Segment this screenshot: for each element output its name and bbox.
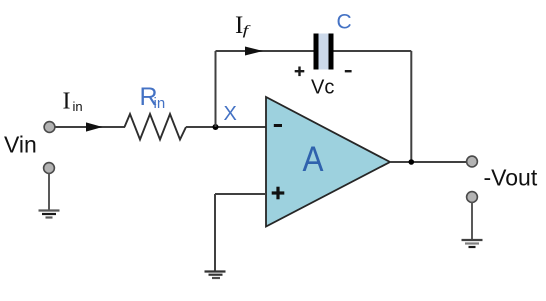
- op-amp A triangle: [266, 97, 390, 227]
- ground (non-inverting input): [205, 272, 226, 279]
- svg-text:in: in: [154, 95, 166, 112]
- svg-text:I: I: [63, 89, 71, 115]
- ground (input reference): [39, 211, 60, 218]
- op-amp non-inverting input marker +: [272, 187, 285, 200]
- wire input from Vin terminal to resistor: [56, 126, 126, 128]
- terminal ground reference (input): [44, 163, 55, 174]
- current arrow Iin: [86, 122, 103, 131]
- terminal Vin: [44, 122, 55, 133]
- svg-text:-Vout: -Vout: [484, 165, 538, 191]
- wire non-inverting input vertical down to ground: [214, 194, 216, 271]
- node X junction dot: [213, 124, 219, 130]
- wire from capacitor right plate to corner: [334, 50, 412, 52]
- terminal output: [467, 156, 478, 167]
- wire from resistor to op-amp inverting input: [186, 126, 266, 128]
- svg-text:Vc: Vc: [311, 77, 334, 99]
- capacitor C left plate: [314, 34, 319, 70]
- node output junction dot: [409, 159, 415, 165]
- svg-text:in: in: [73, 99, 83, 114]
- label - capacitor polarity: [345, 70, 352, 72]
- wire feedback vertical down to output: [410, 51, 412, 162]
- wire feedback horizontal to capacitor: [216, 50, 314, 52]
- wire from input reference terminal down to ground: [48, 174, 50, 211]
- label + capacitor polarity: [295, 67, 305, 77]
- wire output from op-amp to terminal: [390, 161, 467, 163]
- terminal ground reference (output): [467, 192, 478, 203]
- svg-text:Vin: Vin: [4, 132, 37, 158]
- wire non-inverting input horizontal: [215, 193, 266, 195]
- svg-text:C: C: [337, 11, 352, 34]
- wire feedback vertical from node X up: [215, 51, 217, 127]
- ground (output reference): [462, 240, 483, 247]
- op-amp inverting input marker -: [274, 124, 282, 127]
- wire from output reference terminal down to ground: [471, 203, 473, 241]
- resistor Rin: [125, 114, 187, 140]
- current arrow If: [245, 47, 263, 56]
- svg-text:X: X: [224, 103, 237, 125]
- svg-text:A: A: [303, 140, 325, 179]
- capacitor C dielectric fill: [319, 34, 329, 70]
- capacitor C right plate: [329, 34, 334, 70]
- svg-text:f: f: [243, 22, 251, 38]
